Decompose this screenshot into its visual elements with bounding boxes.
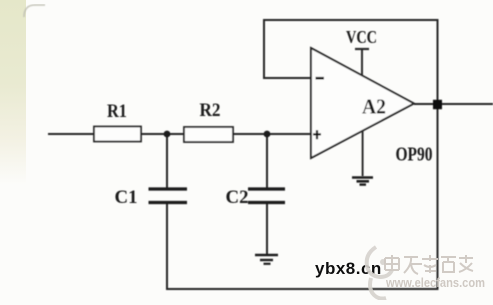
watermark elecfans logo bbox=[367, 247, 392, 299]
svg-text:C2: C2 bbox=[226, 188, 249, 208]
node A junction dot bbox=[164, 131, 171, 138]
ground below op-amp bbox=[352, 178, 373, 185]
node B junction dot bbox=[264, 131, 271, 138]
wire node A down to C1 bbox=[166, 134, 168, 188]
wire feedback left vertical down to minus input bbox=[263, 19, 265, 78]
capacitor C1 bbox=[149, 189, 188, 203]
wire R1 to node A bbox=[141, 133, 184, 135]
wire input segment bbox=[48, 133, 95, 135]
op-amp plus input sign bbox=[313, 130, 321, 139]
ground below C2 bbox=[255, 255, 278, 264]
wire node B down to C2 bbox=[266, 134, 268, 188]
left beige margin strip bbox=[0, 0, 26, 185]
wire output to right edge bbox=[414, 103, 493, 105]
wire feedback top horizontal bbox=[263, 19, 439, 21]
negative supply pin bbox=[362, 131, 364, 176]
resistor R2 bbox=[184, 127, 233, 142]
svg-text:VCC: VCC bbox=[346, 27, 377, 47]
wire R2 to node B and op-amp plus input bbox=[233, 133, 311, 135]
svg-text:A2: A2 bbox=[362, 95, 386, 119]
svg-text:R1: R1 bbox=[107, 101, 127, 122]
wire feedback right vertical from output node up bbox=[437, 19, 439, 104]
wire output node down to bottom rail bbox=[437, 104, 439, 290]
wire C2 bottom to ground bbox=[266, 203, 268, 254]
resistor R1 bbox=[94, 127, 141, 142]
svg-text:R2: R2 bbox=[200, 100, 221, 121]
svg-text:www.elecfans.com: www.elecfans.com bbox=[385, 276, 485, 290]
svg-text:OP90: OP90 bbox=[396, 145, 433, 166]
op-amp minus input sign bbox=[316, 77, 325, 80]
wire bottom rail bbox=[166, 288, 438, 290]
svg-text:C1: C1 bbox=[115, 188, 138, 208]
wire C1 bottom to bottom rail bbox=[166, 203, 168, 290]
op-amp U1 triangle bbox=[311, 48, 414, 158]
wire minus input bbox=[263, 77, 311, 79]
output node square bbox=[433, 100, 442, 109]
rounded card corner top-left bbox=[24, 5, 45, 17]
watermark chinese characters bbox=[385, 255, 473, 274]
capacitor C2 bbox=[248, 189, 285, 203]
VCC pin bbox=[355, 49, 369, 76]
